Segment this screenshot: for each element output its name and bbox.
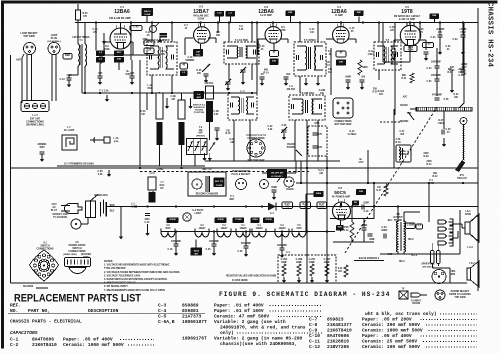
wire TV socket leads — [81, 223, 88, 225]
phono radio switch connector — [65, 258, 91, 267]
svg-text:21K28816: 21K28816 — [327, 338, 349, 344]
svg-text:FM: FM — [141, 114, 144, 116]
black box right rail — [352, 201, 359, 206]
svg-text:C-13: C-13 — [59, 79, 65, 81]
svg-text:(FM): (FM) — [114, 141, 119, 143]
svg-text:50C5: 50C5 — [334, 190, 346, 196]
wire right area verticals — [394, 48, 396, 115]
svg-text:17S48: 17S48 — [235, 218, 242, 221]
svg-text:RADIO: RADIO — [400, 104, 408, 107]
svg-text:2. VOLTAGES TAKEN BETWEEN POIN: 2. VOLTAGES TAKEN BETWEEN POINT INDICATE… — [104, 271, 180, 274]
switch on-off black box — [267, 169, 287, 178]
svg-text:12BA6: 12BA6 — [258, 9, 274, 15]
svg-text:AM: AM — [319, 172, 323, 175]
svg-text:40MF: 40MF — [369, 238, 375, 241]
svg-text:C-12: C-12 — [309, 344, 320, 350]
ground T-5 left — [304, 78, 308, 86]
svg-text:CONNECTIONS: CONNECTIONS — [247, 138, 265, 140]
svg-text:C-25: C-25 — [206, 249, 212, 251]
svg-text:(MARINE LINK): (MARINE LINK) — [26, 124, 43, 127]
svg-text:C-22: C-22 — [268, 126, 274, 128]
svg-text:MOT: MOT — [230, 199, 236, 201]
coil L-6 with core — [178, 100, 185, 145]
svg-text:R-27: R-27 — [377, 190, 383, 192]
capacitor C-26 fil — [244, 246, 249, 248]
svg-text:PHONO: PHONO — [400, 121, 409, 123]
volume control R-36 — [416, 107, 472, 111]
svg-text:.02MF: .02MF — [381, 230, 388, 232]
svg-text:R-42: R-42 — [432, 175, 438, 178]
label box det — [404, 46, 417, 52]
capacitor near gang — [215, 128, 220, 130]
electrolytic 40MF a — [362, 228, 367, 230]
heater V-4 12BA6 — [252, 229, 266, 238]
notes list — [104, 260, 180, 292]
svg-text:8S9881: 8S9881 — [182, 308, 199, 314]
wire heater bus y231 — [161, 231, 335, 233]
svg-text:REF.: REF. — [10, 303, 21, 309]
svg-text:V-1,2,3-6,7-2 & 7-6: V-1,2,3-6,7-2 & 7-6 — [246, 135, 267, 137]
svg-text:R-26: R-26 — [197, 70, 203, 72]
svg-text:R-28: R-28 — [419, 29, 425, 31]
svg-text:12BA6: 12BA6 — [278, 227, 286, 230]
capacitor C-23 — [384, 234, 386, 239]
AC plug P-2 — [61, 204, 82, 214]
IF transformer T-7 — [374, 38, 401, 70]
svg-text:Paper: .01 mf 400V: Paper: .01 mf 400V — [214, 302, 264, 308]
wire V-5 pins — [409, 23, 411, 26]
svg-text:C-9: C-9 — [309, 327, 318, 333]
svg-text:MS-2: MS-2 — [399, 261, 405, 263]
svg-text:52B: 52B — [117, 59, 121, 61]
svg-text:OSC: OSC — [150, 195, 155, 197]
wire right verticals — [439, 23, 441, 36]
svg-text:C-5B: C-5B — [213, 111, 219, 113]
gnd C-38 — [107, 170, 111, 177]
svg-text:C-14: C-14 — [93, 28, 99, 31]
speaker LS-1 — [465, 214, 479, 242]
svg-text:YEL-2: YEL-2 — [411, 255, 418, 257]
svg-text:SIDE): SIDE) — [83, 257, 89, 259]
switch S-5A circle — [150, 26, 157, 33]
svg-text:BRN: BRN — [110, 205, 115, 207]
svg-text:117V: 117V — [51, 204, 57, 206]
coil L-5 with core — [156, 93, 163, 145]
svg-text:L-30M: L-30M — [407, 223, 414, 226]
svg-text:GANG: GANG — [157, 168, 164, 171]
black box V-5 right — [430, 14, 440, 20]
phono pickup cord — [462, 124, 464, 162]
resistor E-1 top — [76, 4, 89, 23]
svg-text:T-3 1st FM IF: T-3 1st FM IF — [154, 38, 170, 42]
ground right of L-5 — [165, 98, 169, 109]
svg-text:C-30: C-30 — [446, 46, 452, 48]
svg-text:R-40: R-40 — [395, 141, 401, 144]
svg-text:.003: .003 — [286, 74, 291, 76]
svg-text:C-18: C-18 — [168, 249, 174, 251]
phono stylus foot — [455, 160, 465, 172]
parts middle column — [158, 302, 322, 347]
svg-text:T-4 10.7MC: T-4 10.7MC — [235, 38, 249, 42]
pilot light E-2 — [183, 213, 191, 221]
speaker plugs — [438, 219, 453, 225]
IF transformer T-3 — [147, 38, 177, 75]
ground arrow right mid — [450, 76, 454, 93]
page border top — [2, 1, 498, 4]
wire row2 box leads — [233, 120, 235, 161]
svg-text:RADIO: RADIO — [287, 143, 295, 146]
wire B+ rail y183 — [296, 182, 478, 184]
svg-text:E-2 PILOT: E-2 PILOT — [192, 210, 204, 212]
svg-text:47K: 47K — [419, 31, 424, 34]
IF transformer T-4 — [224, 38, 259, 64]
svg-text:12BA6: 12BA6 — [331, 9, 347, 15]
svg-text:21K6T8410: 21K6T8410 — [32, 342, 57, 348]
svg-text:Ceramic: 25 mmf 500V: Ceramic: 25 mmf 500V — [362, 338, 417, 344]
heater V-2 12BA7 a — [195, 229, 209, 238]
svg-text:L-7A: L-7A — [113, 137, 118, 140]
svg-text:12BA6: 12BA6 — [239, 227, 247, 230]
svg-text:105V: 105V — [125, 74, 131, 76]
black box V-2 plate — [193, 49, 203, 57]
svg-text:12BA6: 12BA6 — [114, 9, 130, 15]
svg-text:C-5A: C-5A — [140, 110, 146, 113]
svg-text:Ceramic: 100 mmf 500V: Ceramic: 100 mmf 500V — [362, 344, 420, 350]
wire rail y254 right — [380, 253, 460, 255]
svg-text:3300: 3300 — [423, 153, 429, 155]
wire schematic bottom frame — [11, 282, 308, 284]
svg-text:8A4T0606: 8A4T0606 — [327, 333, 349, 339]
capacitor C-25 fil — [212, 244, 217, 246]
switch S-1 rosette — [30, 250, 59, 281]
svg-text:68K: 68K — [402, 75, 407, 77]
svg-text:R-25: R-25 — [82, 13, 88, 15]
gang arrows — [209, 142, 215, 151]
svg-text:RESISTOR VALUES ARE INDICATED: RESISTOR VALUES ARE INDICATED IN OHMS — [226, 275, 277, 278]
svg-text:C-10: C-10 — [145, 222, 151, 224]
svg-text:A5C: A5C — [131, 206, 136, 209]
svg-text:wht & blk, osc trans only): wht & blk, osc trans only) — [365, 311, 437, 317]
IF transformer T-2 row2 — [228, 89, 257, 120]
volume wiper — [459, 103, 464, 108]
dashed phono line — [380, 121, 402, 123]
wire on-off leads — [262, 172, 267, 174]
svg-text:OSC: OSC — [148, 88, 153, 90]
box pair left of V2 a — [180, 63, 188, 69]
black box osc coil stack — [96, 51, 105, 57]
svg-text:470: 470 — [285, 206, 290, 209]
svg-text:52X48: 52X48 — [217, 218, 224, 221]
svg-text:52X48: 52X48 — [169, 218, 176, 221]
dashed gang line — [140, 171, 310, 173]
svg-text:12BA7: 12BA7 — [220, 227, 228, 230]
svg-text:CONNECTIONS: CONNECTIONS — [37, 249, 54, 251]
phono osc coil box — [396, 145, 411, 162]
svg-text:MECH: MECH — [144, 11, 151, 13]
svg-text:1000MMF: 1000MMF — [431, 75, 442, 77]
svg-text:8S9889: 8S9889 — [182, 302, 199, 308]
AC loop plug — [90, 137, 110, 143]
svg-text:Ceramic: 47 mmf 500V: Ceramic: 47 mmf 500V — [214, 313, 269, 319]
loop recept socket J1 — [24, 43, 36, 55]
svg-text:L-4A: L-4A — [148, 84, 153, 87]
ground under C-24 — [145, 224, 149, 236]
spark plug circle — [432, 270, 446, 284]
filter cap dashed box — [278, 255, 336, 283]
svg-text:.02MF: .02MF — [363, 203, 370, 205]
svg-text:52B: 52B — [432, 15, 436, 17]
svg-text:REPLACEMENT PARTS LIST: REPLACEMENT PARTS LIST — [14, 293, 141, 305]
svg-text:Paper: .05 mf 400V: Paper: .05 mf 400V — [362, 333, 412, 339]
underline note — [354, 260, 384, 262]
svg-text:RED: RED — [65, 54, 70, 57]
heater V-3 12BA6 — [275, 229, 289, 238]
svg-text:FM RATIO DET, AM DET: FM RATIO DET, AM DET — [394, 15, 421, 18]
svg-text:19D69176T: 19D69176T — [182, 335, 207, 341]
IF transformer T-6 osc — [289, 91, 325, 120]
svg-text:C-7: C-7 — [309, 316, 318, 322]
socket TV circle — [71, 219, 81, 229]
svg-text:PICK-UP: PICK-UP — [457, 178, 467, 180]
svg-text:& 1ST AF AMP: & 1ST AF AMP — [399, 18, 415, 21]
transformer T-8 — [397, 221, 406, 252]
tube V-3 12BA6 — [265, 24, 282, 44]
wire T-1 leads — [77, 23, 79, 45]
aux plug circle — [260, 180, 269, 189]
gang ground arrows — [202, 153, 206, 161]
wire rail F-1 y93 — [82, 92, 257, 94]
svg-text:C-30: C-30 — [425, 43, 431, 46]
svg-text:(FRONT): (FRONT) — [196, 135, 205, 137]
svg-text:.005: .005 — [400, 134, 405, 136]
wire gang area verticals — [209, 122, 211, 140]
black box stack under V-1 — [114, 51, 124, 57]
coil L-2A slug — [148, 177, 156, 203]
wire T-3 leads — [151, 23, 153, 43]
tweeter LS-2 — [467, 261, 479, 287]
svg-text:C-47: C-47 — [400, 130, 406, 133]
svg-text:NOT TO: NOT TO — [215, 181, 224, 183]
svg-text:19T8: 19T8 — [296, 228, 302, 230]
svg-text:3-30: 3-30 — [98, 174, 103, 176]
svg-text:RADIO: RADIO — [286, 188, 293, 191]
ext ant terminal strip TS1 — [21, 101, 49, 112]
electrolytic 40MF b — [368, 234, 373, 236]
svg-text:6800: 6800 — [362, 67, 368, 69]
svg-text:TOP VIEW: TOP VIEW — [454, 297, 466, 299]
phono recept circle — [435, 290, 445, 300]
wire right inner vertical — [459, 210, 461, 254]
black box L-4 ant — [194, 91, 205, 99]
record changer box — [188, 172, 226, 196]
svg-text:R-16: R-16 — [226, 133, 232, 135]
svg-text:ANT: ANT — [197, 96, 202, 99]
svg-text:470K: 470K — [408, 49, 414, 52]
heater V-6 50C5 — [161, 229, 175, 238]
label box left of V-1 — [130, 26, 142, 31]
svg-text:C-8: C-8 — [309, 322, 318, 328]
wire stubs under top boxes — [219, 17, 221, 23]
svg-text:12BA7: 12BA7 — [193, 9, 209, 15]
svg-text:T-5 455KC: T-5 455KC — [304, 38, 317, 42]
svg-text:RED: RED — [388, 254, 393, 256]
ground C-31 arrow — [438, 37, 442, 55]
switch SP-1 dashed box — [308, 126, 327, 156]
svg-text:AM ANT: AM ANT — [287, 88, 296, 91]
svg-text:V-6: V-6 — [338, 186, 342, 190]
svg-text:C-19: C-19 — [364, 211, 370, 213]
svg-text:52B: 52B — [359, 191, 363, 193]
svg-text:Ceramic: 390 mmf 500V: Ceramic: 390 mmf 500V — [362, 322, 420, 328]
svg-text:52B4: 52B4 — [316, 192, 322, 195]
page border left — [1, 1, 4, 349]
svg-text:(REAR VIEW): (REAR VIEW) — [63, 253, 76, 256]
tube V-6 50C5 — [333, 199, 351, 220]
box pair left of V2 b — [180, 71, 188, 77]
svg-text:C-41: C-41 — [146, 31, 152, 34]
svg-text:AM: AM — [196, 51, 200, 54]
svg-text:CAPACITORS: CAPACITORS — [10, 330, 38, 336]
resistor R-17 box — [317, 202, 327, 209]
svg-text:C-34: C-34 — [427, 67, 433, 70]
L-7 AC loop spiral — [62, 135, 77, 150]
svg-text:C-45: C-45 — [350, 27, 356, 30]
resistor R-20 vertical — [344, 265, 348, 277]
svg-text:T-7: T-7 — [386, 38, 390, 42]
wire schematic right frame — [477, 8, 479, 291]
wire top B+ rail — [75, 22, 478, 24]
motor jones plug — [206, 176, 210, 192]
svg-text:IF AMP: IF AMP — [335, 14, 343, 17]
svg-text:POSITION: POSITION — [194, 112, 205, 114]
resistor R-31 vertical — [410, 73, 414, 83]
svg-text:52X48: 52X48 — [265, 218, 272, 221]
black box relay — [191, 248, 203, 256]
svg-text:C-3: C-3 — [158, 302, 167, 308]
svg-text:2.2 MEG: 2.2 MEG — [348, 134, 357, 136]
wire V-4 pins — [340, 23, 342, 28]
svg-text:470K: 470K — [280, 29, 286, 32]
black box V-6 — [356, 189, 366, 195]
wire heater drops — [175, 232, 177, 245]
svg-text:C-32: C-32 — [452, 39, 458, 41]
svg-text:PHONO-RADIO: PHONO-RADIO — [69, 244, 86, 247]
svg-text:TV CHASSIS: TV CHASSIS — [53, 216, 67, 219]
trimmer C-22 — [282, 130, 287, 132]
svg-text:Paper: .01 mf 100V: Paper: .01 mf 100V — [214, 308, 264, 314]
svg-text:8A4T0606: 8A4T0606 — [32, 337, 54, 343]
heater V-1 12BA6 — [236, 229, 250, 238]
wire T-4 leads — [228, 23, 230, 43]
parts header rule — [8, 312, 205, 314]
tv input plug arrow — [411, 293, 427, 305]
svg-text:5. INPUT VOLTAGE 117V AC: 5. INPUT VOLTAGE 117V AC — [104, 282, 136, 285]
svg-text:15K: 15K — [433, 173, 438, 175]
svg-text:K=1000 OHMS: K=1000 OHMS — [232, 280, 248, 282]
resistor R-27 vertical — [384, 184, 388, 196]
svg-text:C-6B: C-6B — [170, 96, 176, 98]
black box V-3 right — [286, 11, 296, 17]
ground right of L-6 — [188, 98, 192, 109]
capacitor C-24b — [272, 190, 277, 192]
svg-text:24D691870, wht & red, and tran: 24D691870, wht & red, and trans — [220, 324, 306, 330]
svg-text:40MF: 40MF — [281, 261, 288, 264]
interlock pins — [101, 200, 107, 217]
capacitor C-19 mid — [362, 205, 364, 210]
svg-text:MOT TO: MOT TO — [202, 169, 211, 171]
svg-text:chassis)(use with 24DK90563,: chassis)(use with 24DK90563, — [220, 341, 297, 347]
parts right column — [309, 311, 477, 350]
svg-text:FM OSC: FM OSC — [205, 83, 214, 85]
resistor R-11 box — [336, 60, 346, 66]
svg-text:47MA: 47MA — [465, 213, 472, 216]
svg-text:C-38: C-38 — [444, 99, 450, 101]
wire V-1 pins — [120, 23, 122, 29]
black box 52X48 no4 — [251, 218, 260, 224]
svg-text:AM: AM — [171, 98, 175, 101]
capacitor C-18 pair — [260, 77, 265, 79]
svg-text:C-40: C-40 — [217, 12, 223, 15]
svg-text:AC LOOP: AC LOOP — [64, 129, 75, 132]
svg-text:BR: BR — [195, 254, 199, 256]
svg-text:T-6 AM OSC: T-6 AM OSC — [300, 91, 315, 95]
wire x296 seg — [295, 161, 297, 173]
switch S-2 lever — [408, 112, 414, 120]
wire V-6 conn — [340, 203, 342, 207]
svg-text:470K: 470K — [343, 226, 349, 229]
svg-text:F-1 1.5A: F-1 1.5A — [99, 90, 109, 93]
svg-text:330MMF: 330MMF — [37, 144, 47, 146]
wire box drop — [146, 16, 148, 23]
black box near 50C5 — [314, 191, 324, 197]
svg-text:C-31: C-31 — [430, 37, 436, 39]
changer info black box — [214, 178, 225, 188]
svg-text:SWITCH: SWITCH — [40, 246, 49, 248]
resistor R-4 box — [144, 48, 154, 54]
svg-text:10K: 10K — [216, 35, 221, 37]
black box 52X48 no2 — [215, 218, 227, 224]
svg-text:1-2-3: 1-2-3 — [149, 173, 155, 175]
svg-text:52B: 52B — [272, 61, 276, 63]
wire T-8 conn — [397, 207, 399, 223]
svg-text:C-10: C-10 — [309, 333, 320, 339]
capacitor C-21 pair — [346, 80, 351, 82]
svg-text:SP-1: SP-1 — [314, 123, 320, 125]
svg-text:FM & AM RF AMP: FM & AM RF AMP — [109, 16, 131, 20]
svg-text:Ceramic: 1000 mmf 500V: Ceramic: 1000 mmf 500V — [362, 327, 423, 333]
svg-text:SOCKET FOR: SOCKET FOR — [52, 214, 68, 216]
svg-text:R-34: R-34 — [454, 93, 460, 96]
svg-text:R-32A: R-32A — [378, 90, 385, 93]
svg-text:C-1: C-1 — [10, 337, 19, 343]
black box n20 — [336, 225, 344, 231]
oscillator section parts — [202, 64, 210, 72]
svg-text:4. BAND SWITCH IN FM POSITION,: 4. BAND SWITCH IN FM POSITION, EXCEPT AS… — [104, 278, 168, 281]
svg-text:C-11: C-11 — [309, 338, 320, 344]
svg-text:19D69187T: 19D69187T — [182, 319, 207, 325]
svg-text:8S9823: 8S9823 — [327, 316, 344, 322]
svg-text:C-2: C-2 — [10, 342, 19, 348]
svg-text:C-43: C-43 — [260, 45, 266, 48]
svg-text:AC: AC — [52, 206, 56, 209]
resistor R-7 box — [270, 51, 279, 57]
wire rail y242 — [333, 241, 374, 243]
svg-text:PHONO RECEPT: PHONO RECEPT — [451, 291, 470, 293]
svg-text:60 CY: 60 CY — [51, 210, 58, 212]
svg-text:52X4: 52X4 — [194, 249, 200, 252]
dashed gang linkage — [345, 107, 437, 253]
svg-text:S-2-1: S-2-1 — [318, 170, 324, 172]
